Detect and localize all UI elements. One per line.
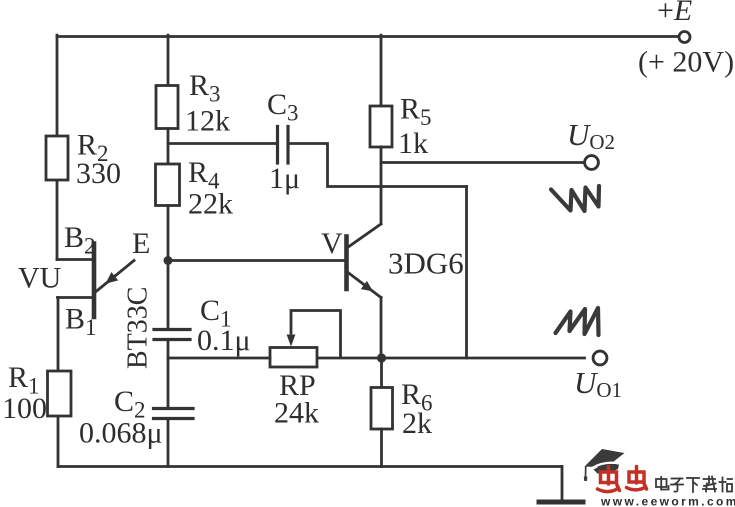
wire left rail lower xyxy=(57,298,60,467)
svg-text:V: V xyxy=(321,227,343,260)
capacitor C3 xyxy=(278,127,289,164)
wire R5 bottom to collector xyxy=(380,147,383,224)
resistor R6 xyxy=(371,388,393,430)
wire R5 branch top xyxy=(380,35,383,106)
logo graduation cap xyxy=(584,449,625,481)
transistor V emitter arrow xyxy=(361,281,373,292)
wire RP wiper loop xyxy=(291,311,341,358)
svg-text:www.eeworm.com: www.eeworm.com xyxy=(600,495,735,507)
wire R4 to node E xyxy=(167,206,170,261)
wire node E to C1 xyxy=(167,261,170,330)
svg-text:100: 100 xyxy=(2,392,47,425)
svg-text:3DG6: 3DG6 xyxy=(388,246,464,281)
transistor VU emitter lead xyxy=(96,261,134,292)
resistor R3 xyxy=(156,86,178,129)
transistor V base bar xyxy=(344,237,349,290)
wire emitter down xyxy=(380,298,383,359)
transistor V emitter lead xyxy=(348,273,381,298)
capacitor C1 xyxy=(154,330,190,340)
resistor R5 xyxy=(370,106,392,147)
transistor VU base bar xyxy=(92,244,97,318)
wire UO2 output xyxy=(381,161,584,164)
terminal +E xyxy=(679,32,690,43)
svg-text:B2: B2 xyxy=(64,221,96,259)
svg-text:2k: 2k xyxy=(402,407,432,440)
wire B2 lead xyxy=(57,258,94,261)
wire UO1 output xyxy=(318,357,585,360)
wire mid branch top xyxy=(167,35,170,85)
svg-text:0.1μ: 0.1μ xyxy=(197,324,251,357)
svg-text:1k: 1k xyxy=(398,127,428,160)
wire C3 right xyxy=(288,144,467,187)
wire R6 top xyxy=(380,358,383,388)
terminal UO1 xyxy=(593,351,607,365)
wire C2 to ground rail xyxy=(167,419,170,467)
wire to C3 left xyxy=(168,142,276,145)
svg-text:22k: 22k xyxy=(188,188,233,221)
wire left rail upper xyxy=(56,35,59,259)
wire B1 lead xyxy=(58,296,95,299)
wire bottom rail xyxy=(58,465,562,468)
resistor R4 xyxy=(156,164,180,206)
node E junction xyxy=(164,256,173,265)
svg-text:E: E xyxy=(132,227,150,260)
svg-text:UO2: UO2 xyxy=(567,117,615,154)
svg-text:R3: R3 xyxy=(189,69,221,107)
wire R6 bottom xyxy=(380,429,383,467)
wire RP left xyxy=(168,357,270,360)
svg-text:24k: 24k xyxy=(274,397,319,430)
RP wiper arrow xyxy=(287,335,296,347)
potentiometer RP body xyxy=(270,348,317,368)
svg-text:330: 330 xyxy=(76,157,121,190)
logo text dianzixiazaizhan xyxy=(656,477,732,493)
svg-text:0.068μ: 0.068μ xyxy=(79,417,163,450)
terminal UO2 xyxy=(585,156,599,170)
ground xyxy=(539,500,583,505)
wire C1 to C2 xyxy=(167,340,170,409)
logo text chongchong xyxy=(598,467,647,492)
wire R3-R4 link xyxy=(167,129,170,165)
waveform sawtooth at UO2 xyxy=(551,186,599,211)
svg-text:C3: C3 xyxy=(267,88,299,126)
resistor R1 xyxy=(48,371,72,416)
svg-text:(+ 20V): (+ 20V) xyxy=(638,46,734,79)
svg-text:12k: 12k xyxy=(185,105,230,138)
svg-text:UO1: UO1 xyxy=(574,365,622,402)
node UO1 junction xyxy=(377,353,386,362)
wire bootstrap vertical xyxy=(465,187,468,359)
svg-text:BT33C: BT33C xyxy=(123,287,154,369)
svg-text:1μ: 1μ xyxy=(269,162,300,195)
capacitor C2 xyxy=(154,409,194,419)
svg-text:R5: R5 xyxy=(400,93,432,131)
resistor R2 xyxy=(46,136,68,180)
transistor VU emitter arrow xyxy=(106,272,119,284)
wire base from node E xyxy=(168,259,345,262)
svg-text:+E: +E xyxy=(657,0,692,27)
svg-text:VU: VU xyxy=(18,262,62,295)
wire top +E rail xyxy=(57,35,678,38)
waveform ramp at UO1 xyxy=(556,308,599,335)
wire ground stem xyxy=(561,467,564,501)
transistor V collector lead xyxy=(348,224,382,248)
